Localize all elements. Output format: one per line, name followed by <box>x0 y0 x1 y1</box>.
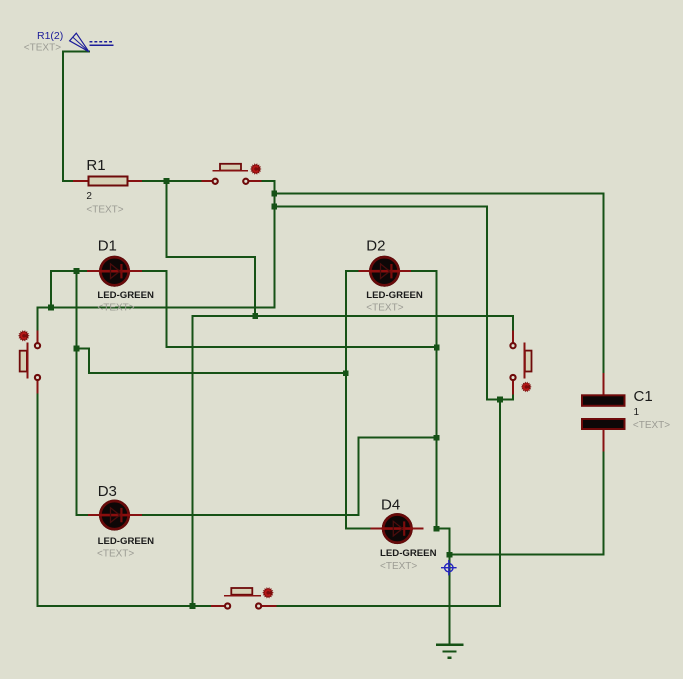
svg-text:2: 2 <box>86 191 92 202</box>
svg-text:1: 1 <box>634 407 640 418</box>
svg-text:<TEXT>: <TEXT> <box>86 205 123 216</box>
svg-text:D2: D2 <box>366 237 385 254</box>
svg-text:LED-GREEN: LED-GREEN <box>97 290 154 301</box>
svg-text:LED-GREEN: LED-GREEN <box>380 548 437 559</box>
svg-text:<TEXT>: <TEXT> <box>97 302 134 313</box>
svg-text:<TEXT>: <TEXT> <box>633 420 670 431</box>
svg-text:D3: D3 <box>98 483 117 500</box>
svg-text:C1: C1 <box>634 388 653 405</box>
svg-text:LED-GREEN: LED-GREEN <box>366 290 423 301</box>
svg-text:D4: D4 <box>381 497 400 514</box>
svg-text:R1(2): R1(2) <box>37 30 63 42</box>
svg-text:LED-GREEN: LED-GREEN <box>98 536 155 547</box>
svg-text:<TEXT>: <TEXT> <box>366 302 403 313</box>
svg-text:<TEXT>: <TEXT> <box>97 548 134 559</box>
svg-text:R1: R1 <box>86 157 105 174</box>
svg-text:<TEXT>: <TEXT> <box>380 561 417 572</box>
svg-text:D1: D1 <box>98 237 117 254</box>
svg-text:<TEXT>: <TEXT> <box>24 42 61 53</box>
